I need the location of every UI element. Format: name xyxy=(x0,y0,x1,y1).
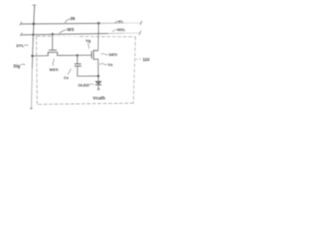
junction DTL x WSL xyxy=(32,34,34,36)
capacitor Cs xyxy=(75,54,81,76)
label 36 (PL numeral) xyxy=(65,16,76,23)
svg-text:WS: WS xyxy=(67,27,74,32)
power line PL xyxy=(20,21,142,25)
junction DTL x wire xyxy=(31,55,33,57)
svg-text:Cs: Cs xyxy=(64,76,69,80)
svg-text:Vg: Vg xyxy=(86,38,92,43)
svg-text:WSL: WSL xyxy=(117,28,126,32)
junction drain x WSL xyxy=(97,33,99,35)
svg-text:PL: PL xyxy=(119,19,125,24)
junction DTL x PL xyxy=(32,23,35,26)
wire WSTr drain to DRTr gate (node Vg) xyxy=(57,54,91,56)
wire PL to DRTr drain xyxy=(97,22,100,51)
svg-text:WSTr: WSTr xyxy=(49,68,59,72)
label WSL xyxy=(112,28,126,32)
pixel boundary dashed box xyxy=(36,36,135,104)
data line DTL xyxy=(30,5,36,109)
wire Cs bottom to source node xyxy=(77,75,98,77)
label 35 (WSL numeral) xyxy=(60,27,75,33)
wire DRTr source down xyxy=(97,59,99,76)
label DTL xyxy=(16,43,28,48)
label WSTr xyxy=(49,59,59,73)
label 110 (pixel numeral) xyxy=(136,57,151,62)
junction source node x Cs return xyxy=(97,75,100,78)
label OLED xyxy=(78,83,94,88)
label Sig xyxy=(13,63,25,68)
svg-text:110: 110 xyxy=(143,57,151,62)
label Vg xyxy=(86,38,92,48)
label PL xyxy=(115,19,124,24)
svg-text:Vs: Vs xyxy=(108,62,114,67)
svg-text:DRTr: DRTr xyxy=(109,53,118,57)
transistor WSTr xyxy=(48,50,57,56)
OLED diode xyxy=(96,76,102,90)
wire DTL to WSTr source xyxy=(32,55,48,57)
label Cs xyxy=(64,69,71,80)
svg-text:Vcath: Vcath xyxy=(93,95,106,100)
svg-text:OLED: OLED xyxy=(78,83,89,88)
svg-text:Sig: Sig xyxy=(13,63,20,68)
wire WSTr gate to WSL xyxy=(51,33,53,50)
scan line WSL xyxy=(20,31,140,35)
svg-text:DTL: DTL xyxy=(16,43,24,48)
svg-text:36: 36 xyxy=(70,16,75,21)
label Vs xyxy=(99,62,113,67)
transistor DRTr xyxy=(92,50,99,59)
label DRTr xyxy=(101,53,118,57)
